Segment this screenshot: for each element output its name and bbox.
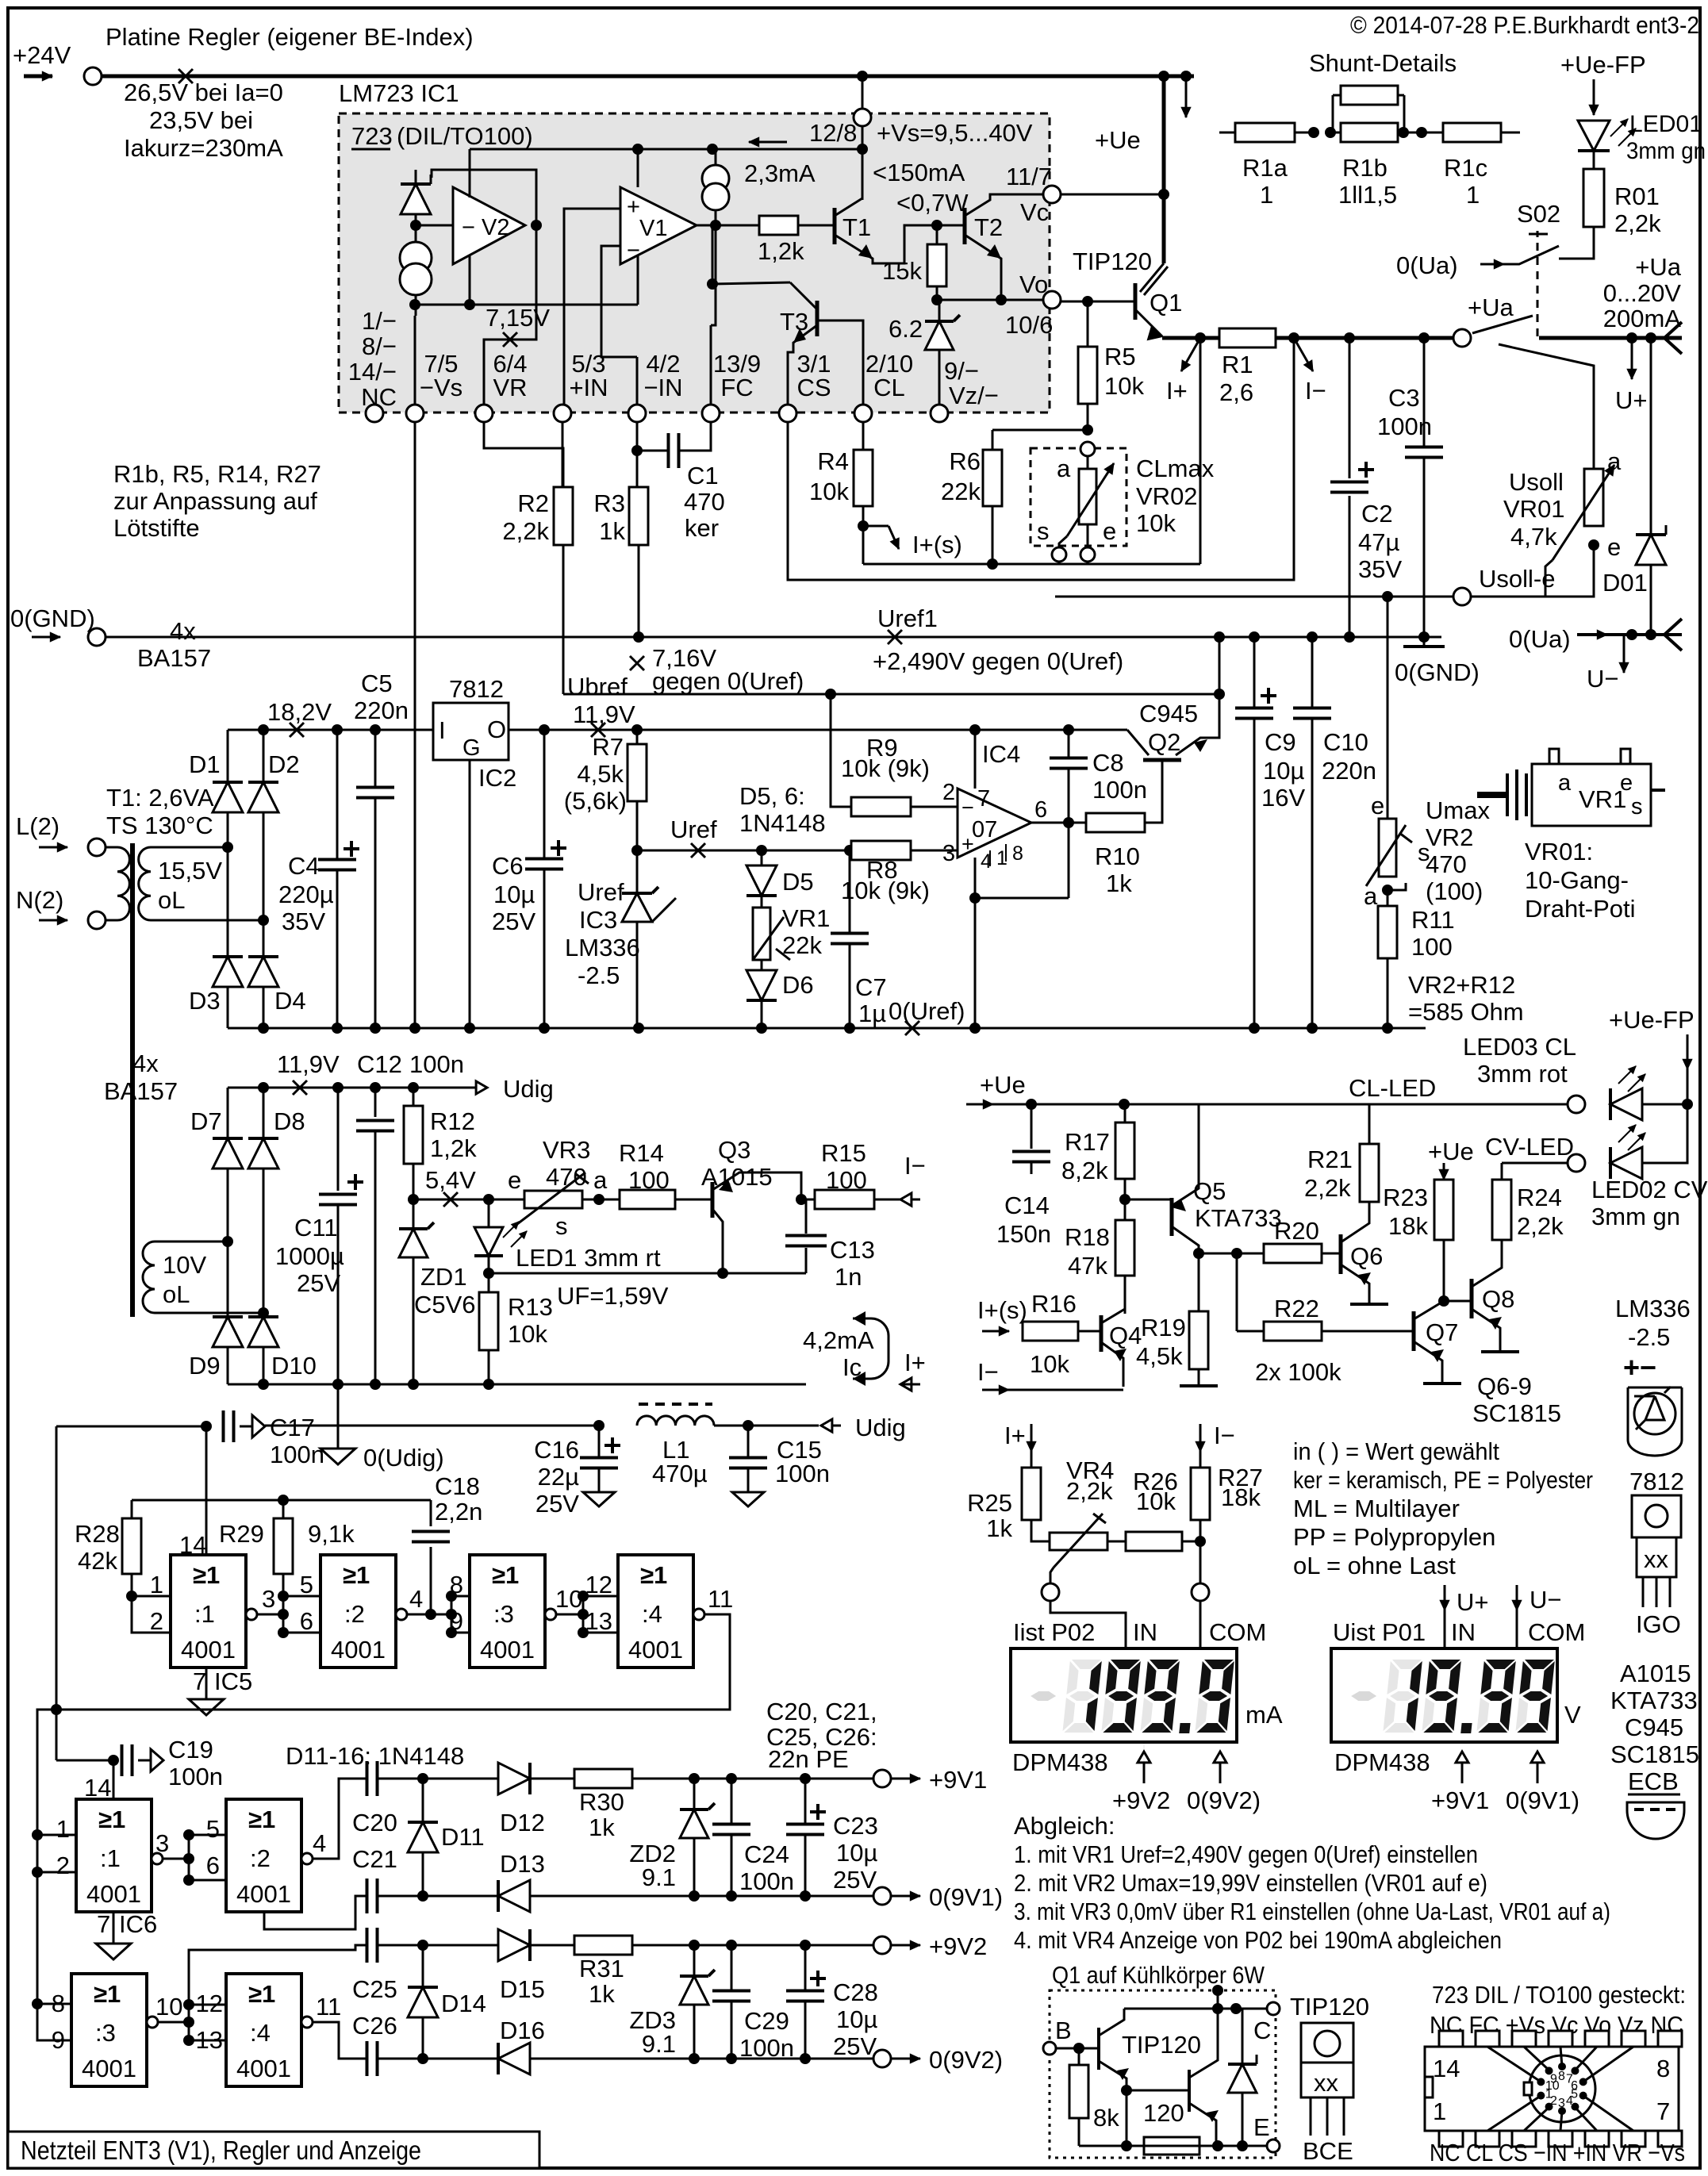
svg-text:C19: C19 bbox=[168, 1736, 213, 1763]
diode D14 bbox=[422, 1945, 424, 1987]
svg-text:a: a bbox=[1558, 770, 1572, 796]
svg-text:4001: 4001 bbox=[480, 1636, 535, 1664]
wire Udig supply line bbox=[265, 1425, 599, 1427]
svg-text:C20: C20 bbox=[352, 1809, 397, 1836]
capacitor C24 bbox=[731, 1779, 733, 1824]
svg-text:+: + bbox=[627, 194, 640, 220]
svg-text:D7: D7 bbox=[190, 1107, 222, 1135]
svg-text:C4: C4 bbox=[288, 852, 320, 880]
arrow U- bbox=[1623, 635, 1625, 673]
svg-text:1. mit VR1 Uref=2,490V gegen 0: 1. mit VR1 Uref=2,490V gegen 0(Uref) ein… bbox=[1014, 1840, 1478, 1868]
IC6 pin14 wire bbox=[113, 1760, 115, 1799]
potentiometer VR1 bbox=[761, 896, 763, 908]
capacitor C17 bbox=[222, 1410, 225, 1442]
resistor R13 bbox=[488, 1273, 490, 1292]
resistor R26 bbox=[1126, 1532, 1182, 1551]
svg-text:−Vs: −Vs bbox=[420, 374, 463, 401]
capacitor C12 bbox=[374, 1088, 377, 1117]
svg-text:+Ue: +Ue bbox=[980, 1071, 1026, 1099]
svg-text:I+: I+ bbox=[904, 1349, 926, 1376]
line Usoll-e / +IN feedback bbox=[562, 693, 565, 696]
capacitor C18 bbox=[430, 1500, 432, 1526]
zener ZD2 bbox=[693, 1779, 696, 1808]
svg-text:−IN: −IN bbox=[643, 374, 682, 401]
svg-text:+2,490V gegen 0(Uref): +2,490V gegen 0(Uref) bbox=[873, 647, 1123, 675]
svg-text:I+(s): I+(s) bbox=[977, 1296, 1027, 1324]
svg-text:4. mit VR4 Anzeige von P02 bei: 4. mit VR4 Anzeige von P02 bei 190mA abg… bbox=[1014, 1926, 1502, 1954]
svg-text:R30: R30 bbox=[579, 1788, 624, 1816]
svg-text:LM723 IC1: LM723 IC1 bbox=[339, 79, 459, 107]
svg-text:Udig: Udig bbox=[503, 1075, 554, 1103]
svg-text:Draht-Poti: Draht-Poti bbox=[1525, 895, 1636, 923]
svg-text:4001: 4001 bbox=[82, 2055, 136, 2082]
svg-text:U+: U+ bbox=[1615, 386, 1648, 414]
svg-text:+24V: +24V bbox=[13, 41, 71, 69]
svg-text:25V: 25V bbox=[492, 908, 535, 935]
resistor R4 bbox=[862, 422, 865, 450]
resistor R25 bbox=[1022, 1468, 1041, 1520]
resistor 120 bbox=[1126, 2090, 1128, 2146]
svg-text:Q8: Q8 bbox=[1482, 1285, 1514, 1313]
svg-text:6: 6 bbox=[1034, 797, 1047, 823]
svg-text:NC: NC bbox=[361, 383, 397, 411]
svg-text:+: + bbox=[961, 832, 974, 856]
svg-text:SC1815: SC1815 bbox=[1610, 1740, 1699, 1768]
svg-text:4: 4 bbox=[313, 1829, 326, 1857]
svg-text:T1: T1 bbox=[842, 213, 871, 241]
svg-text:R24: R24 bbox=[1517, 1184, 1562, 1211]
svg-text:25V: 25V bbox=[833, 2032, 877, 2060]
svg-text:22n PE: 22n PE bbox=[768, 1745, 849, 1773]
svg-text:Iakurz=230mA: Iakurz=230mA bbox=[124, 134, 283, 162]
svg-text:C5: C5 bbox=[361, 670, 393, 697]
svg-text:470: 470 bbox=[1426, 850, 1467, 878]
svg-text::3: :3 bbox=[95, 2019, 116, 2047]
svg-text:42k: 42k bbox=[78, 1547, 117, 1575]
svg-text:≥1: ≥1 bbox=[94, 1980, 121, 2008]
svg-text:NC CL CS −IN +IN VR −Vs: NC CL CS −IN +IN VR −Vs bbox=[1430, 2139, 1685, 2166]
bottom rail E bbox=[1079, 2145, 1267, 2147]
svg-text:2,6: 2,6 bbox=[1219, 378, 1253, 406]
svg-text:D14: D14 bbox=[441, 1990, 486, 2017]
svg-text:7: 7 bbox=[1566, 2072, 1573, 2086]
wire V2 out to VR pin bbox=[484, 225, 536, 404]
svg-text:25V: 25V bbox=[297, 1269, 340, 1297]
diode D16 bbox=[498, 2043, 530, 2074]
svg-text:≥1: ≥1 bbox=[98, 1806, 125, 1833]
svg-text:2,2k: 2,2k bbox=[1304, 1174, 1351, 1202]
svg-text:+9V2: +9V2 bbox=[1112, 1786, 1170, 1814]
wire thick +24V down to Q1 collector bbox=[1162, 76, 1166, 263]
svg-text:16V: 16V bbox=[1261, 784, 1305, 812]
svg-text:UF=1,59V: UF=1,59V bbox=[557, 1282, 669, 1310]
svg-text:220n: 220n bbox=[1322, 757, 1376, 785]
svg-text:BCE: BCE bbox=[1303, 2137, 1353, 2165]
node Uref bbox=[631, 845, 643, 856]
arrows +9V2 0(9V2) into P02 bbox=[1143, 1752, 1146, 1780]
wire +IN column bbox=[562, 422, 564, 487]
svg-text:COM: COM bbox=[1209, 1618, 1266, 1646]
capacitor C10 bbox=[1311, 637, 1314, 708]
svg-text:R7: R7 bbox=[592, 733, 624, 761]
svg-text:2. mit VR2 Umax=19,99V einstel: 2. mit VR2 Umax=19,99V einstellen (VR01 … bbox=[1014, 1869, 1487, 1897]
svg-text:4,7k: 4,7k bbox=[1510, 523, 1557, 551]
svg-text:IC4: IC4 bbox=[982, 740, 1020, 768]
svg-text:oL: oL bbox=[158, 886, 185, 914]
diode internal ref bbox=[415, 170, 417, 184]
svg-text:TS 130°C: TS 130°C bbox=[106, 812, 213, 839]
svg-text:0(Ua): 0(Ua) bbox=[1396, 251, 1458, 279]
rail 0(Uref) bbox=[228, 1027, 1426, 1030]
svg-text:C8: C8 bbox=[1092, 749, 1124, 777]
capacitor C14 bbox=[1031, 1104, 1033, 1149]
svg-text:Q6: Q6 bbox=[1350, 1242, 1383, 1270]
T1 primary coil bbox=[117, 847, 129, 920]
svg-text:Shunt-Details: Shunt-Details bbox=[1309, 49, 1457, 77]
diode D5 bbox=[756, 845, 767, 856]
svg-text:IGO: IGO bbox=[1636, 1610, 1681, 1638]
svg-text:723 DIL / TO100 gesteckt:: 723 DIL / TO100 gesteckt: bbox=[1432, 1981, 1686, 2009]
svg-text:in ( ) = Wert gewählt: in ( ) = Wert gewählt bbox=[1293, 1437, 1499, 1465]
svg-text:VR1: VR1 bbox=[782, 904, 830, 932]
IC4 output to R10 bbox=[1031, 822, 1086, 824]
zener ZD3 bbox=[693, 1945, 696, 1975]
line to C17/C19 column bbox=[56, 1426, 58, 1710]
svg-text:5,4V: 5,4V bbox=[425, 1166, 476, 1194]
svg-text:0(9V1): 0(9V1) bbox=[1506, 1786, 1579, 1814]
svg-text:≥1: ≥1 bbox=[248, 1980, 275, 2008]
VR4 wiper to P02 bbox=[1050, 1568, 1054, 1583]
svg-text:LM336: LM336 bbox=[565, 934, 640, 961]
arrow I- right bbox=[874, 1199, 920, 1201]
svg-text:Uref: Uref bbox=[670, 816, 717, 843]
transistor T2 bbox=[963, 208, 967, 244]
svg-text:+IN: +IN bbox=[569, 374, 608, 401]
svg-text:2,2k: 2,2k bbox=[1614, 209, 1661, 237]
resistor R11 bbox=[1387, 890, 1389, 906]
svg-text:≥1: ≥1 bbox=[343, 1561, 370, 1589]
bridge rail top 18,2V bbox=[228, 729, 433, 731]
capacitor C13 bbox=[805, 1199, 808, 1234]
svg-text:C16: C16 bbox=[534, 1436, 579, 1464]
svg-text:200mA: 200mA bbox=[1603, 305, 1682, 332]
svg-text:5: 5 bbox=[206, 1815, 220, 1843]
svg-text:7: 7 bbox=[1656, 2097, 1670, 2125]
svg-text:C5V6: C5V6 bbox=[414, 1291, 476, 1318]
svg-text:a: a bbox=[1607, 447, 1622, 475]
svg-text:O: O bbox=[487, 716, 506, 743]
svg-text:− V2: − V2 bbox=[462, 215, 509, 240]
svg-text:R2: R2 bbox=[517, 489, 549, 517]
svg-text:C9: C9 bbox=[1265, 728, 1296, 756]
svg-text:12: 12 bbox=[585, 1571, 612, 1598]
seven segment digits P02 199.9 bbox=[1027, 1660, 1234, 1733]
resistor R10 bbox=[1086, 813, 1145, 832]
svg-text:35V: 35V bbox=[1358, 555, 1402, 583]
svg-text:VR01:: VR01: bbox=[1525, 838, 1593, 865]
svg-text:T1: 2,6VA: T1: 2,6VA bbox=[106, 784, 214, 812]
svg-text:D3: D3 bbox=[189, 987, 221, 1015]
svg-text:10k: 10k bbox=[1136, 1487, 1176, 1515]
resistor R17 bbox=[1124, 1104, 1127, 1123]
svg-text:-2.5: -2.5 bbox=[578, 961, 620, 989]
svg-text:Usoll: Usoll bbox=[1509, 468, 1564, 496]
svg-text:470: 470 bbox=[684, 488, 725, 516]
resistor R1b pair bbox=[1341, 123, 1398, 142]
DIL pins top/bottom bbox=[1439, 2031, 1463, 2047]
TO100 circle bbox=[1529, 2055, 1595, 2122]
svg-text:10/6: 10/6 bbox=[1005, 311, 1053, 339]
svg-text:+−: +− bbox=[1623, 1351, 1656, 1384]
svg-text:4,2mA: 4,2mA bbox=[803, 1326, 874, 1354]
svg-text:22k: 22k bbox=[941, 478, 981, 505]
IC6 gate2 bottom loop to C21 bbox=[264, 1896, 367, 1929]
svg-text:10µ: 10µ bbox=[493, 881, 535, 908]
svg-text:3: 3 bbox=[1558, 2097, 1565, 2110]
capacitor C19 bbox=[108, 1755, 119, 1766]
svg-text:1k: 1k bbox=[589, 1813, 615, 1841]
svg-text:220µ: 220µ bbox=[278, 881, 334, 908]
T3 base to CL bbox=[817, 320, 863, 404]
svg-text:C945: C945 bbox=[1625, 1714, 1683, 1741]
zener ZD1 bbox=[413, 1199, 415, 1227]
svg-text:IC2: IC2 bbox=[478, 764, 516, 792]
svg-text:R19: R19 bbox=[1141, 1314, 1186, 1341]
svg-text:4001: 4001 bbox=[236, 1880, 291, 1908]
svg-text:R25: R25 bbox=[967, 1489, 1012, 1517]
svg-text:I−: I− bbox=[1305, 377, 1326, 405]
svg-text:220n: 220n bbox=[354, 697, 409, 724]
svg-text:35V: 35V bbox=[282, 908, 325, 935]
svg-text:LED01: LED01 bbox=[1629, 111, 1702, 137]
svg-text:18,2V: 18,2V bbox=[267, 698, 332, 726]
feedback line to IC6 bbox=[37, 1614, 730, 2040]
svg-text:(100): (100) bbox=[1426, 877, 1483, 905]
label I- meter bbox=[1199, 1424, 1202, 1452]
svg-text:9: 9 bbox=[450, 1607, 463, 1635]
svg-text:D11: D11 bbox=[441, 1823, 485, 1851]
transistor Q7 bbox=[1412, 1311, 1416, 1351]
arrow I- bbox=[1294, 338, 1313, 371]
svg-text:4: 4 bbox=[409, 1585, 423, 1613]
terminal B bbox=[1043, 2042, 1056, 2055]
svg-text:VR2: VR2 bbox=[1426, 823, 1473, 851]
svg-text:+Ue: +Ue bbox=[1095, 126, 1141, 154]
svg-text:4x: 4x bbox=[170, 617, 196, 645]
svg-text:8,2k: 8,2k bbox=[1061, 1157, 1108, 1184]
VR wire to R2 bbox=[484, 422, 563, 487]
svg-text:D5: D5 bbox=[782, 868, 814, 896]
svg-text:A1015: A1015 bbox=[1620, 1660, 1691, 1687]
wire +Ue stub arrow bbox=[1185, 76, 1188, 117]
zener 6.2 to Vz bbox=[938, 300, 941, 320]
V1 output node bbox=[710, 220, 721, 231]
svg-text:R17: R17 bbox=[1065, 1128, 1110, 1156]
svg-text:IN: IN bbox=[1451, 1618, 1476, 1646]
svg-text:C11: C11 bbox=[294, 1214, 338, 1242]
svg-text:Vc: Vc bbox=[1020, 198, 1049, 226]
svg-text:100: 100 bbox=[1411, 933, 1453, 961]
T1 core bbox=[130, 843, 135, 1317]
svg-text:1: 1 bbox=[1260, 181, 1273, 209]
line Usoll-e bbox=[1055, 596, 1453, 598]
svg-text:100n: 100n bbox=[739, 1867, 794, 1895]
svg-text:PP = Polypropylen: PP = Polypropylen bbox=[1293, 1523, 1495, 1551]
svg-text:2: 2 bbox=[942, 780, 955, 805]
pin 12/8 +Vs bbox=[854, 109, 871, 126]
resistor R12 bbox=[413, 1088, 415, 1106]
svg-text:I−: I− bbox=[977, 1358, 999, 1386]
svg-text:10: 10 bbox=[155, 1993, 182, 2021]
wire +24V thick top rail bbox=[24, 75, 52, 79]
capacitor C2 bbox=[1349, 338, 1351, 478]
svg-text:TIP120: TIP120 bbox=[1122, 2031, 1201, 2059]
svg-text:100n: 100n bbox=[270, 1441, 324, 1468]
IC4 pin4 ground loop bbox=[974, 858, 977, 1028]
rail +Ua bbox=[1162, 336, 1462, 340]
op-amp V1 bbox=[620, 187, 697, 264]
svg-text:1N4148: 1N4148 bbox=[739, 809, 826, 837]
svg-text:1n: 1n bbox=[835, 1263, 862, 1291]
svg-text:D4: D4 bbox=[274, 987, 306, 1015]
svg-text:D9: D9 bbox=[189, 1352, 221, 1380]
svg-text:7: 7 bbox=[97, 1910, 110, 1938]
svg-text:+Ue: +Ue bbox=[1428, 1138, 1474, 1165]
svg-text:VR01: VR01 bbox=[1503, 495, 1565, 523]
svg-text:R28: R28 bbox=[75, 1520, 120, 1548]
capacitor C15 bbox=[714, 1425, 819, 1427]
diode D15 bbox=[498, 1929, 530, 1961]
svg-text:D5, 6:: D5, 6: bbox=[739, 782, 805, 810]
svg-text:13: 13 bbox=[585, 1607, 612, 1635]
svg-text:4001: 4001 bbox=[181, 1636, 236, 1664]
gate 4001 :1 bbox=[76, 1799, 152, 1912]
svg-text:Ubref: Ubref bbox=[567, 673, 628, 700]
svg-text:100n: 100n bbox=[1092, 776, 1147, 804]
svg-text:I+: I+ bbox=[1166, 377, 1188, 405]
svg-text:D2: D2 bbox=[268, 750, 300, 778]
svg-text:e: e bbox=[1371, 792, 1384, 819]
svg-text:Umax: Umax bbox=[1426, 796, 1490, 824]
svg-text:10k: 10k bbox=[809, 478, 849, 505]
row 0(9V2) bbox=[378, 2058, 882, 2060]
switch S02 output bbox=[1453, 329, 1471, 347]
svg-text:14/−: 14/− bbox=[348, 358, 397, 386]
svg-text:9.1: 9.1 bbox=[642, 1863, 676, 1891]
svg-text:e: e bbox=[1607, 533, 1621, 561]
IC5 pin14 wire bbox=[205, 1426, 208, 1555]
svg-text:V: V bbox=[1564, 1701, 1581, 1729]
svg-text:07: 07 bbox=[972, 817, 997, 842]
resistor R22 bbox=[1236, 1253, 1238, 1331]
svg-text:7: 7 bbox=[977, 786, 990, 812]
svg-text:ML = Multilayer: ML = Multilayer bbox=[1293, 1495, 1460, 1522]
svg-text:14: 14 bbox=[1433, 2055, 1460, 2082]
svg-text:10k: 10k bbox=[1136, 509, 1176, 537]
resistor R29 bbox=[282, 1500, 285, 1518]
arrow Udig right bbox=[821, 1425, 841, 1427]
svg-text:ECB: ECB bbox=[1628, 1767, 1679, 1795]
svg-text:CV-LED: CV-LED bbox=[1485, 1133, 1574, 1161]
svg-text:−: − bbox=[627, 238, 640, 263]
svg-text:xx: xx bbox=[1314, 2069, 1339, 2097]
svg-text:7: 7 bbox=[193, 1667, 206, 1695]
svg-text:Q7: Q7 bbox=[1426, 1318, 1458, 1346]
LED02 bbox=[1610, 1147, 1642, 1179]
svg-text:VR02: VR02 bbox=[1136, 482, 1198, 510]
capacitor C8 bbox=[1063, 724, 1074, 735]
svg-text:2,2k: 2,2k bbox=[502, 517, 549, 545]
svg-text:10k (9k): 10k (9k) bbox=[841, 877, 930, 904]
svg-text:26,5V bei Ia=0: 26,5V bei Ia=0 bbox=[124, 79, 283, 106]
svg-text:C14: C14 bbox=[1004, 1192, 1050, 1219]
svg-text:14: 14 bbox=[84, 1774, 111, 1802]
wire ref diode to V2 out bbox=[432, 170, 536, 225]
svg-text:2,2k: 2,2k bbox=[1066, 1477, 1113, 1505]
svg-text:7812: 7812 bbox=[1629, 1468, 1684, 1495]
svg-text::1: :1 bbox=[194, 1600, 215, 1628]
capacitor C28 bbox=[804, 1945, 807, 1990]
svg-text:100n: 100n bbox=[409, 1050, 464, 1078]
svg-text:9: 9 bbox=[52, 2026, 65, 2054]
svg-text:C18: C18 bbox=[435, 1472, 480, 1500]
svg-text:4001: 4001 bbox=[86, 1880, 141, 1908]
svg-text:3. mit VR3 0,0mV über R1 einst: 3. mit VR3 0,0mV über R1 einstellen (ohn… bbox=[1014, 1898, 1610, 1925]
seven segment digits P01 19.99 bbox=[1347, 1660, 1555, 1733]
svg-text:D15: D15 bbox=[500, 1975, 545, 2003]
svg-text:R1: R1 bbox=[1222, 351, 1253, 378]
svg-text:0(GND): 0(GND) bbox=[1395, 658, 1480, 686]
svg-text:D16: D16 bbox=[500, 2017, 545, 2044]
svg-text:470µ: 470µ bbox=[652, 1460, 708, 1487]
svg-text:≥1: ≥1 bbox=[640, 1561, 667, 1589]
svg-text:VR2+R12: VR2+R12 bbox=[1408, 971, 1515, 999]
arrow I+(s) bbox=[863, 525, 889, 528]
resistor 15k bbox=[931, 220, 942, 231]
capacitor C9 bbox=[1253, 637, 1256, 708]
svg-text:Usoll-e: Usoll-e bbox=[1479, 565, 1555, 593]
T1 secondary 10V bbox=[143, 1242, 155, 1313]
row +9V1 bbox=[378, 1778, 882, 1780]
resistor R18 bbox=[1115, 1220, 1134, 1276]
svg-text:V1: V1 bbox=[639, 216, 667, 241]
svg-text:mA: mA bbox=[1245, 1701, 1283, 1729]
TO100 cross wiring bbox=[1487, 2096, 1541, 2131]
svg-text:C2: C2 bbox=[1361, 500, 1393, 528]
svg-text:R1c: R1c bbox=[1444, 154, 1487, 182]
svg-text:a: a bbox=[1057, 455, 1071, 482]
wire -Vs down to 0(Uref) bbox=[414, 422, 416, 1028]
svg-text:R14: R14 bbox=[619, 1139, 664, 1167]
wire C25 feed bbox=[189, 1945, 367, 2005]
wire Vo to Q1 base bbox=[1061, 301, 1135, 303]
gate 4001 :2 bbox=[226, 1799, 301, 1912]
svg-text:5: 5 bbox=[300, 1571, 313, 1598]
IC4 pin7 supply bbox=[974, 730, 977, 789]
potentiometer VR2 Umax bbox=[1387, 597, 1389, 819]
title box bbox=[8, 2132, 539, 2168]
svg-text:DPM438: DPM438 bbox=[1012, 1748, 1108, 1776]
svg-text:T2: T2 bbox=[974, 213, 1003, 241]
resistor R8 bbox=[850, 850, 853, 852]
ground 0(Udig) symbol bbox=[337, 1384, 340, 1449]
svg-text:IC6: IC6 bbox=[119, 1910, 157, 1938]
svg-text:gegen 0(Uref): gegen 0(Uref) bbox=[652, 667, 804, 695]
svg-text:11,9V: 11,9V bbox=[277, 1050, 340, 1078]
diode D13 bbox=[498, 1880, 530, 1912]
svg-text:10µ: 10µ bbox=[1263, 757, 1304, 785]
svg-text:I+: I+ bbox=[1004, 1422, 1026, 1449]
